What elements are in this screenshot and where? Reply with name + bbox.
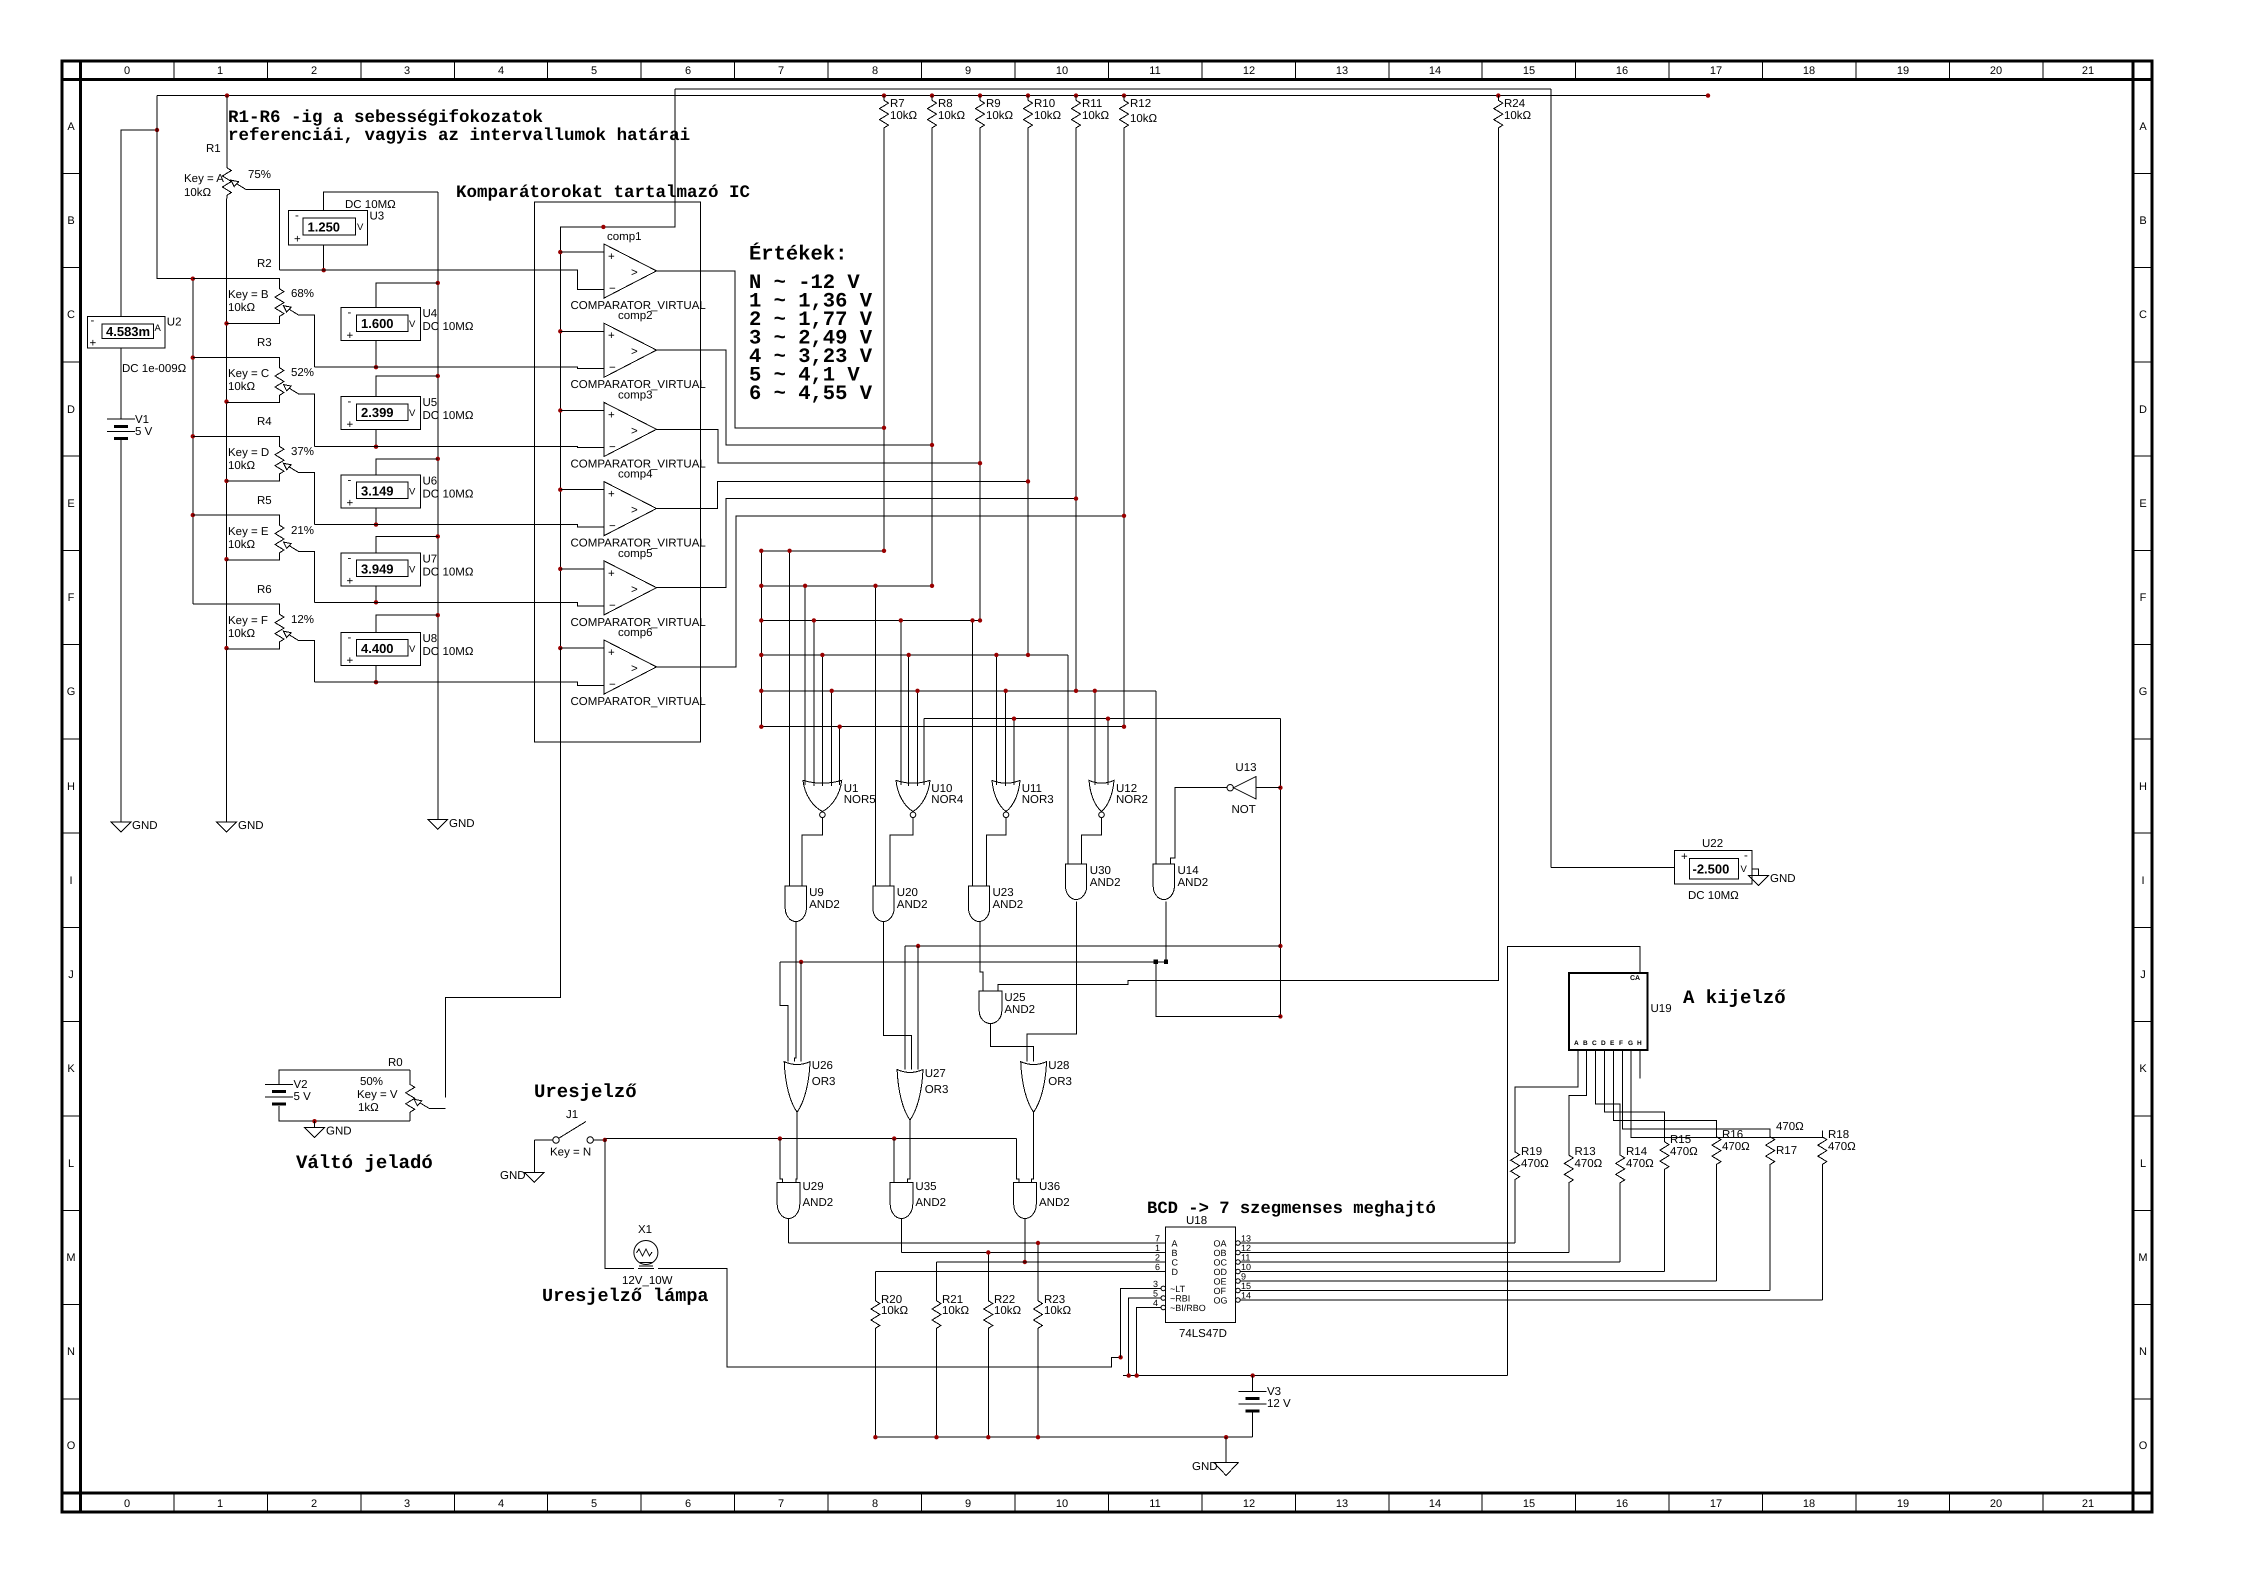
svg-text:DC: DC (423, 410, 440, 422)
wire pot rail B to GND (226, 199, 228, 822)
wire U35 in1 drop (893, 1139, 895, 1183)
svg-text:GND: GND (326, 1126, 352, 1138)
svg-text:−: − (609, 441, 616, 453)
svg-text:U3: U3 (370, 211, 385, 223)
svg-text:E: E (2139, 498, 2146, 510)
svg-text:U18: U18 (1186, 1215, 1207, 1227)
svg-text:14: 14 (1429, 65, 1441, 77)
svg-text:+: + (608, 568, 615, 580)
resistor R24 (998, 96, 1532, 992)
svg-text:11: 11 (1149, 65, 1160, 77)
svg-text:B: B (1172, 1248, 1178, 1258)
svg-text:>: > (631, 267, 638, 279)
svg-text:+: + (608, 489, 615, 501)
svg-text:470Ω: 470Ω (1776, 1121, 1804, 1133)
resistor R12 (1120, 96, 1158, 727)
wire BI pin (1137, 1308, 1161, 1376)
node signal stub (601, 225, 605, 229)
svg-text:NOR4: NOR4 (931, 794, 964, 806)
switch J1 (534, 1109, 605, 1159)
node U4 plus (374, 365, 378, 369)
svg-text:A: A (67, 121, 75, 133)
potentiometer R4 (193, 416, 315, 525)
gate U30 AND2 (1066, 864, 1121, 900)
wire V1 plus up to ammeter (121, 130, 157, 419)
svg-text:OR3: OR3 (1048, 1076, 1072, 1088)
svg-text:10kΩ: 10kΩ (184, 187, 212, 199)
svg-text:U6: U6 (423, 475, 438, 487)
svg-text:10kΩ: 10kΩ (228, 460, 256, 472)
voltmeter U3 (289, 192, 438, 270)
svg-text:B: B (2139, 215, 2146, 227)
svg-text:GND: GND (449, 818, 475, 830)
svg-text:C: C (1172, 1258, 1179, 1268)
svg-text:-: - (348, 552, 352, 564)
wire drop U30 in1 (1067, 655, 1069, 864)
svg-text:16: 16 (1616, 65, 1628, 77)
wire H2 to U26 in1 (780, 962, 788, 1062)
gate U20 AND2 (873, 886, 928, 922)
wire drop U14 in1 (1155, 691, 1157, 864)
node LT joint (1118, 1355, 1122, 1359)
resistor R10 (1024, 96, 1062, 655)
wire fan D (1605, 1050, 1665, 1136)
comparator IC box (535, 202, 701, 742)
wire J1 rail (605, 1138, 1017, 1140)
svg-text:10kΩ: 10kΩ (1034, 110, 1062, 122)
svg-text:V: V (409, 564, 416, 575)
svg-text:R11: R11 (1082, 98, 1102, 110)
svg-text:-: - (348, 396, 352, 408)
svg-text:K: K (2139, 1063, 2147, 1075)
svg-text:GND: GND (500, 1170, 526, 1182)
svg-text:OD: OD (1214, 1267, 1228, 1277)
wire U29 output to row A (788, 1219, 790, 1244)
node bus tap joints (787, 549, 1126, 729)
gate U9 AND2 (785, 886, 840, 922)
gate U29 AND2 (777, 1181, 833, 1219)
svg-text:10kΩ: 10kΩ (881, 1305, 909, 1317)
resistor R8 (928, 96, 966, 586)
svg-text:R3: R3 (257, 337, 272, 349)
svg-text:10kΩ: 10kΩ (1082, 110, 1110, 122)
svg-text:NOT: NOT (1232, 804, 1256, 816)
svg-text:68%: 68% (291, 288, 314, 300)
wire U10 out to U20 in2 (890, 818, 913, 886)
svg-text:L: L (2140, 1158, 2146, 1170)
svg-text:G: G (1628, 1040, 1633, 1047)
svg-text:50%: 50% (360, 1076, 383, 1088)
wire U9 out to U26 in2 (795, 922, 796, 1062)
wire U27 in1 drop (904, 946, 906, 1070)
svg-text:−: − (609, 521, 616, 533)
svg-text:U30: U30 (1090, 865, 1111, 877)
svg-text:75%: 75% (248, 169, 271, 181)
wire node1 to comp1 minus (279, 270, 604, 289)
wire fan A (1515, 1050, 1578, 1146)
svg-text:13: 13 (1241, 1234, 1251, 1244)
node U8 plus (374, 680, 378, 684)
wire U12 out to U30 in2 (1082, 818, 1102, 864)
svg-text:10kΩ: 10kΩ (1044, 1305, 1072, 1317)
svg-text:0: 0 (124, 1498, 130, 1510)
svg-text:R6: R6 (257, 584, 272, 596)
svg-text:I: I (2141, 875, 2144, 887)
svg-text:+: + (347, 655, 354, 667)
svg-text:comp4: comp4 (618, 469, 653, 481)
svg-text:1: 1 (1155, 1243, 1160, 1253)
column numbers bottom (124, 1498, 2094, 1510)
op-amp comp4 (560, 469, 706, 550)
voltmeter U6 (341, 459, 474, 525)
wire J1 node up (604, 1139, 606, 1140)
svg-text:~LT: ~LT (1170, 1284, 1186, 1294)
svg-text:DC: DC (423, 321, 440, 333)
svg-text:R5: R5 (257, 495, 272, 507)
wire bus L4 (761, 654, 1068, 656)
row letters left (66, 121, 75, 1452)
svg-text:10kΩ: 10kΩ (994, 1305, 1022, 1317)
resistor R16 (1712, 1129, 1750, 1281)
wire signal top (675, 88, 1551, 90)
svg-text:AND2: AND2 (809, 899, 840, 911)
wire row B (902, 1252, 1166, 1254)
svg-text:R24: R24 (1504, 98, 1526, 110)
wire top rail (157, 95, 1708, 97)
svg-text:I: I (69, 875, 72, 887)
wire lamp to LT net (658, 1269, 1121, 1368)
svg-text:A: A (1574, 1040, 1579, 1047)
wire OG (1240, 1299, 1822, 1301)
svg-text:+: + (608, 409, 615, 421)
battery V2 (265, 1079, 311, 1104)
wire U20 out to U27 in2 (884, 922, 912, 1070)
svg-text:10MΩ: 10MΩ (443, 488, 474, 500)
svg-text:AND2: AND2 (1090, 877, 1121, 889)
svg-text:U22: U22 (1702, 838, 1723, 850)
wire OB (1240, 1252, 1569, 1254)
svg-text:12: 12 (1241, 1243, 1251, 1253)
op-amp comp5 (560, 548, 706, 629)
node U7 plus (374, 600, 378, 604)
svg-text:0: 0 (124, 65, 130, 77)
svg-text:-: - (348, 632, 352, 644)
svg-text:+: + (347, 497, 354, 509)
svg-text:2: 2 (311, 1498, 317, 1510)
svg-text:10: 10 (1241, 1262, 1251, 1272)
svg-text:A: A (2139, 121, 2147, 133)
svg-text:AND2: AND2 (1004, 1004, 1035, 1016)
potentiometer R2 (193, 258, 315, 367)
svg-text:10kΩ: 10kΩ (228, 539, 256, 551)
wire U28 out to U36 in2 (1031, 1112, 1033, 1182)
svg-text:470Ω: 470Ω (1670, 1146, 1698, 1158)
node top rail junctions (225, 93, 1710, 97)
svg-text:R4: R4 (257, 416, 272, 428)
svg-text:7: 7 (778, 1498, 784, 1510)
wire plus12 rail (1123, 1375, 1508, 1377)
svg-text:M: M (2138, 1252, 2147, 1264)
svg-text:10kΩ: 10kΩ (1130, 113, 1158, 125)
svg-text:1.250: 1.250 (308, 220, 341, 235)
svg-text:1: 1 (217, 65, 223, 77)
node J1 rail joints (778, 1136, 897, 1140)
wire row C (937, 1261, 1166, 1263)
svg-text:DC: DC (423, 488, 440, 500)
svg-text:O: O (2139, 1440, 2148, 1452)
column ticks top (174, 61, 2043, 79)
svg-text:OB: OB (1214, 1248, 1227, 1258)
wire U13 input (1171, 788, 1228, 864)
wire drops U10 inputs (901, 620, 924, 786)
svg-text:74LS47D: 74LS47D (1179, 1328, 1227, 1340)
svg-text:5 V: 5 V (294, 1091, 312, 1103)
svg-text:10MΩ: 10MΩ (443, 321, 474, 333)
svg-text:5: 5 (1153, 1289, 1158, 1299)
gate U12 NOR2 (1089, 780, 1148, 817)
svg-text:10kΩ: 10kΩ (228, 381, 256, 393)
ground U22 (1749, 873, 1796, 886)
svg-text:470Ω: 470Ω (1722, 1141, 1750, 1153)
svg-text:5: 5 (591, 65, 597, 77)
gate U13 NOT (1227, 762, 1257, 816)
svg-text:OC: OC (1214, 1258, 1228, 1268)
svg-text:DC 10MΩ: DC 10MΩ (1688, 890, 1739, 902)
svg-text:U20: U20 (897, 887, 918, 899)
resistor R20 (871, 1272, 909, 1438)
svg-text:6 ~ 4,55 V: 6 ~ 4,55 V (749, 383, 873, 406)
wire J1 to rail and lamp (605, 1140, 634, 1269)
svg-text:R15: R15 (1670, 1134, 1691, 1146)
resistor R7 (880, 96, 918, 551)
svg-text:DC: DC (423, 566, 440, 578)
svg-text:4: 4 (498, 65, 504, 77)
wire U11 out to U23 in2 (986, 818, 1006, 886)
wire drop U9 in1 (789, 551, 791, 886)
svg-text:18: 18 (1803, 1498, 1815, 1510)
resistor R22 (984, 1253, 1022, 1438)
node H2 joints (799, 960, 803, 964)
node J1 right (603, 1138, 607, 1142)
IC U18 74LS47D (1161, 1215, 1240, 1340)
svg-text:-: - (348, 307, 352, 319)
wire bus L3 (761, 619, 980, 621)
lamp X1 (622, 1224, 673, 1287)
svg-text:11: 11 (1241, 1253, 1250, 1263)
svg-text:20: 20 (1990, 1498, 2002, 1510)
svg-text:3.949: 3.949 (361, 561, 394, 576)
wire J1 left to GND (533, 1140, 535, 1172)
op-amp comp6 (560, 627, 706, 708)
svg-text:7: 7 (778, 65, 784, 77)
ammeter U2 (87, 315, 186, 375)
wire drops U11 inputs (996, 655, 1014, 786)
svg-text:20: 20 (1990, 65, 2002, 77)
op-amp comp3 (560, 389, 706, 470)
wire U25 out to U28 in2 (991, 1023, 1034, 1062)
wire comp3 output (657, 429, 981, 463)
svg-text:+: + (1681, 851, 1688, 863)
svg-text:M: M (66, 1252, 75, 1264)
svg-text:+: + (347, 575, 354, 587)
svg-text:NOR3: NOR3 (1022, 794, 1054, 806)
svg-text:9: 9 (1241, 1272, 1246, 1282)
svg-text:3: 3 (404, 1498, 410, 1510)
ground V3 (1192, 1461, 1238, 1476)
svg-text:K: K (67, 1063, 75, 1075)
node plus12 joints (1127, 1373, 1255, 1377)
wire signal rail (560, 89, 675, 648)
node NOT output joints (1278, 786, 1282, 1019)
svg-text:C: C (1592, 1040, 1597, 1047)
svg-text:AND2: AND2 (1039, 1197, 1070, 1209)
svg-text:10kΩ: 10kΩ (228, 302, 256, 314)
svg-text:R18: R18 (1828, 1129, 1849, 1141)
resistor R23 (1034, 1243, 1072, 1437)
wire U27 out to U35 in2 (907, 1120, 910, 1182)
svg-text:U9: U9 (809, 887, 824, 899)
svg-text:R17: R17 (1776, 1145, 1797, 1157)
svg-text:−: − (609, 283, 616, 295)
svg-text:+: + (347, 330, 354, 342)
wire gnd drop (1225, 1437, 1227, 1463)
wire U36 in1 drop (1016, 1139, 1019, 1183)
svg-text:10MΩ: 10MΩ (443, 566, 474, 578)
wire bus L2 (761, 585, 932, 587)
svg-text:470Ω: 470Ω (1626, 1158, 1654, 1170)
svg-text:1: 1 (217, 1498, 223, 1510)
resistor R19 (1511, 1146, 1550, 1243)
wire U1 out to U9 in2 (802, 818, 822, 886)
svg-text:R8: R8 (938, 98, 953, 110)
svg-text:R1-R6 -ig a sebességifokozatok: R1-R6 -ig a sebességifokozatok (228, 108, 543, 128)
seven segment display U19 (1569, 973, 1672, 1050)
wire V2 loop bottom (279, 1106, 410, 1121)
svg-text:U28: U28 (1048, 1060, 1069, 1072)
svg-text:Key = V: Key = V (357, 1089, 398, 1101)
node U3 plus (322, 268, 326, 272)
svg-text:DC 10MΩ: DC 10MΩ (345, 199, 396, 211)
gate U1 NOR5 (803, 780, 876, 817)
wire row D (875, 1271, 1165, 1273)
svg-text:12 V: 12 V (1267, 1398, 1291, 1410)
svg-text:D: D (1172, 1267, 1179, 1277)
node V1 feed (155, 128, 159, 132)
svg-text:referenciái, vagyis az interva: referenciái, vagyis az intervallumok hat… (228, 126, 690, 146)
node U6 plus (374, 522, 378, 526)
svg-text:OG: OG (1214, 1296, 1228, 1306)
svg-text:G: G (67, 686, 76, 698)
wire U30 out to U28 in1 (1027, 901, 1077, 1061)
resistor R11 (1072, 96, 1110, 691)
wire fan G (1631, 1050, 1822, 1137)
svg-text:19: 19 (1897, 1498, 1909, 1510)
wire DC-minus rail to GND (437, 192, 439, 820)
op-amp comp1 (560, 231, 706, 312)
wire V1 minus to GND (120, 438, 122, 823)
svg-text:-: - (295, 210, 299, 222)
svg-text:C: C (67, 309, 75, 321)
svg-text:-: - (348, 474, 352, 486)
op-amp comp2 (560, 310, 706, 391)
svg-text:+: + (90, 338, 97, 350)
svg-text:Key = D: Key = D (228, 447, 269, 459)
wire OA (1240, 1242, 1515, 1244)
svg-text:470Ω: 470Ω (1575, 1158, 1603, 1170)
gate U11 NOR3 (992, 780, 1054, 817)
svg-text:470Ω: 470Ω (1521, 1158, 1549, 1170)
resistor R21 (932, 1262, 970, 1437)
svg-text:AND2: AND2 (803, 1197, 834, 1209)
wire fan E (1613, 1050, 1716, 1131)
svg-text:1.600: 1.600 (361, 316, 394, 331)
svg-text:19: 19 (1897, 65, 1909, 77)
wire ground bus (875, 1436, 1252, 1438)
svg-text:~RBI: ~RBI (1170, 1294, 1190, 1304)
node ground bus joints (873, 1435, 1228, 1439)
svg-text:9: 9 (965, 1498, 971, 1510)
voltmeter U5 (341, 376, 474, 447)
svg-text:>: > (631, 425, 638, 437)
wire fan F (1623, 1050, 1771, 1131)
svg-text:AND2: AND2 (1178, 877, 1209, 889)
svg-text:10MΩ: 10MΩ (443, 646, 474, 658)
svg-text:CA: CA (1630, 975, 1640, 982)
svg-text:Key = F: Key = F (228, 615, 268, 627)
gate U28 OR3 (1021, 1060, 1072, 1112)
svg-text:DC: DC (423, 646, 440, 658)
svg-text:12%: 12% (291, 614, 314, 626)
svg-text:NOR5: NOR5 (844, 794, 876, 806)
wire U14 out to H2 (1165, 901, 1167, 962)
wire bus L6 (761, 726, 1124, 728)
wire fan B (1569, 1050, 1587, 1149)
label U18 pin numbers left (1153, 1234, 1160, 1309)
svg-text:F: F (68, 592, 75, 604)
wire drop U20 in1 (875, 586, 877, 886)
svg-text:V: V (1741, 864, 1748, 875)
resistor R13 (1564, 1146, 1602, 1253)
svg-text:+: + (608, 251, 615, 263)
gate U35 AND2 (890, 1181, 946, 1219)
potentiometer R5 (193, 495, 315, 602)
wire comp6 output (657, 516, 1125, 667)
wire V2 loop top (279, 1070, 410, 1085)
wire comp4 output (657, 481, 1029, 508)
svg-text:~BI/RBO: ~BI/RBO (1170, 1303, 1206, 1313)
node H2 right junction (1154, 960, 1158, 964)
svg-text:H: H (1637, 1040, 1642, 1047)
wire connector H2 (780, 961, 1166, 963)
svg-text:>: > (631, 505, 638, 517)
svg-text:21: 21 (2082, 1498, 2094, 1510)
wire NOT output net vertical (1279, 719, 1281, 1017)
wire drop U23 in1 (972, 620, 974, 886)
svg-text:J1: J1 (566, 1109, 578, 1121)
svg-text:R0: R0 (388, 1057, 403, 1069)
svg-text:−: − (609, 679, 616, 691)
svg-text:V: V (409, 319, 416, 330)
svg-text:U5: U5 (423, 397, 438, 409)
svg-text:Key = E: Key = E (228, 526, 269, 538)
svg-text:V2: V2 (294, 1079, 308, 1091)
svg-text:3: 3 (1153, 1279, 1158, 1289)
svg-text:D: D (1601, 1040, 1606, 1047)
svg-text:4.400: 4.400 (361, 641, 394, 656)
svg-text:6: 6 (685, 65, 691, 77)
svg-text:OA: OA (1214, 1239, 1227, 1249)
svg-text:10: 10 (1056, 65, 1068, 77)
